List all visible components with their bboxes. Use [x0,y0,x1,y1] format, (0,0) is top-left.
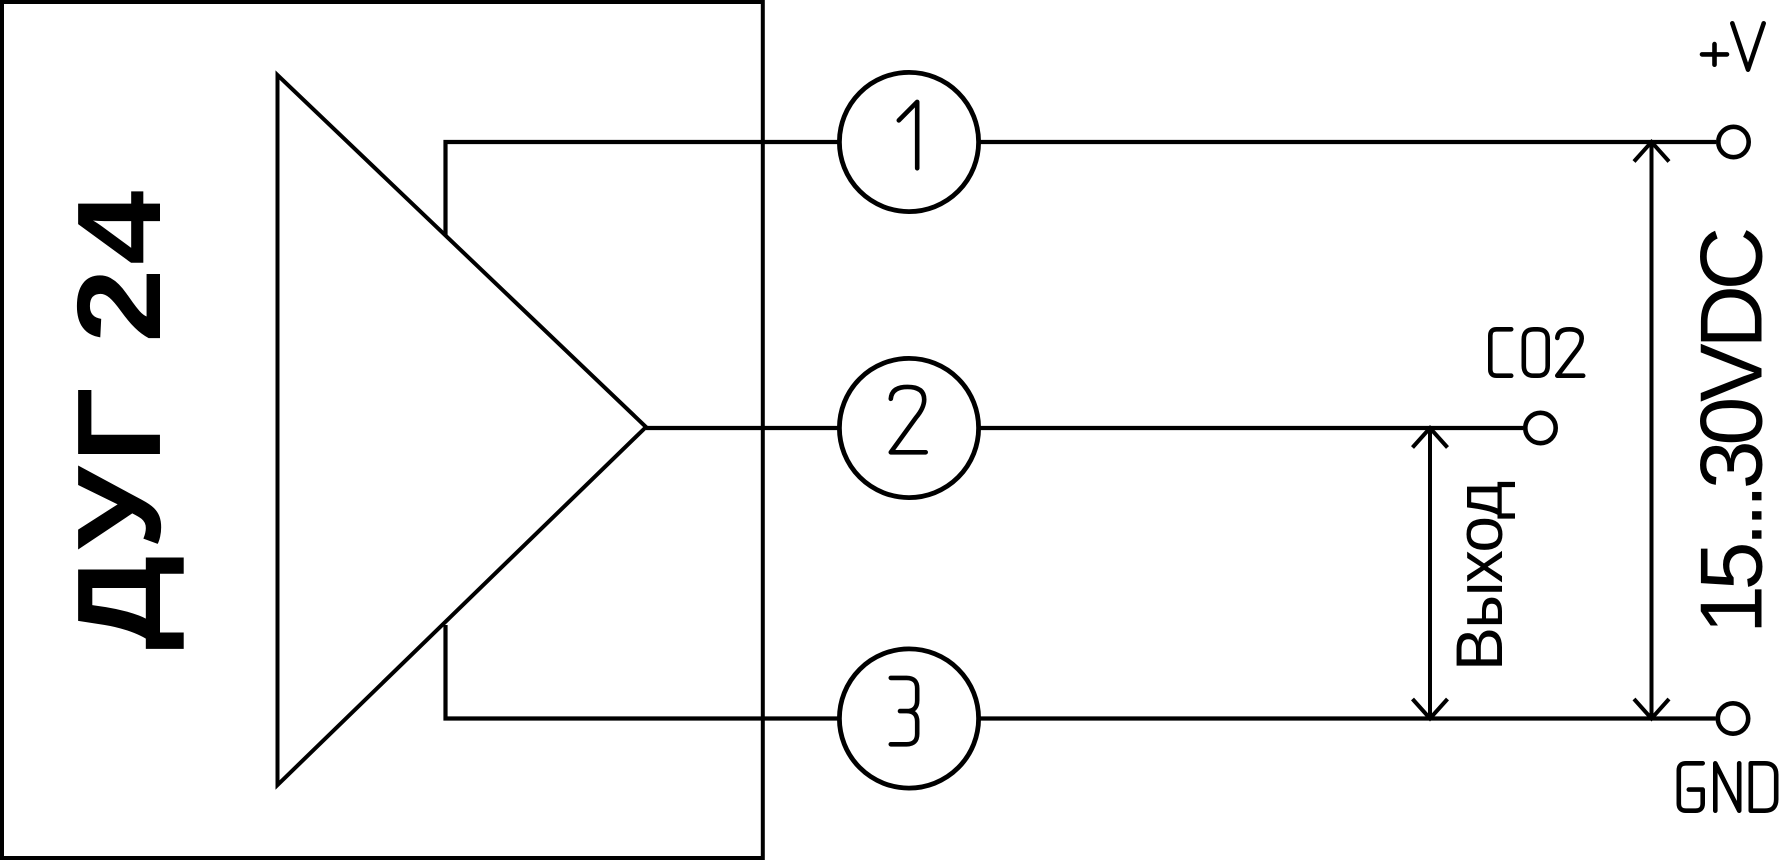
wire CO2 output net [979,426,1524,430]
pin number 3 [891,678,917,744]
label CO2 [1490,329,1583,375]
wire pin1 from triangle top edge [446,142,840,236]
label GND [1679,763,1776,810]
svg-text:ДУГ 24: ДУГ 24 [53,187,186,650]
+V terminal node [1718,127,1748,157]
amplifier triangle [278,75,647,785]
wire pin2 from triangle apex [646,426,840,430]
dimension line 15...30VDC between +V and GND [1650,142,1654,719]
wire +V net [979,140,1717,144]
pin number 1 [899,102,917,168]
dimension line Выход between CO2 and GND [1428,428,1432,719]
svg-text:Выход: Выход [1442,481,1516,671]
svg-text:15...30VDC: 15...30VDC [1682,229,1781,634]
wire pin3 from triangle bottom edge [446,625,840,719]
wire GND net [979,716,1716,720]
label +V [1702,23,1764,69]
CO2 terminal node [1525,413,1555,443]
sensor body box [2,2,763,858]
terminal circle pin 3 [839,649,978,788]
pin number 2 [891,387,926,452]
GND terminal node [1718,703,1748,733]
terminal circle pin 1 [839,72,978,211]
terminal circle pin 2 [839,358,978,497]
